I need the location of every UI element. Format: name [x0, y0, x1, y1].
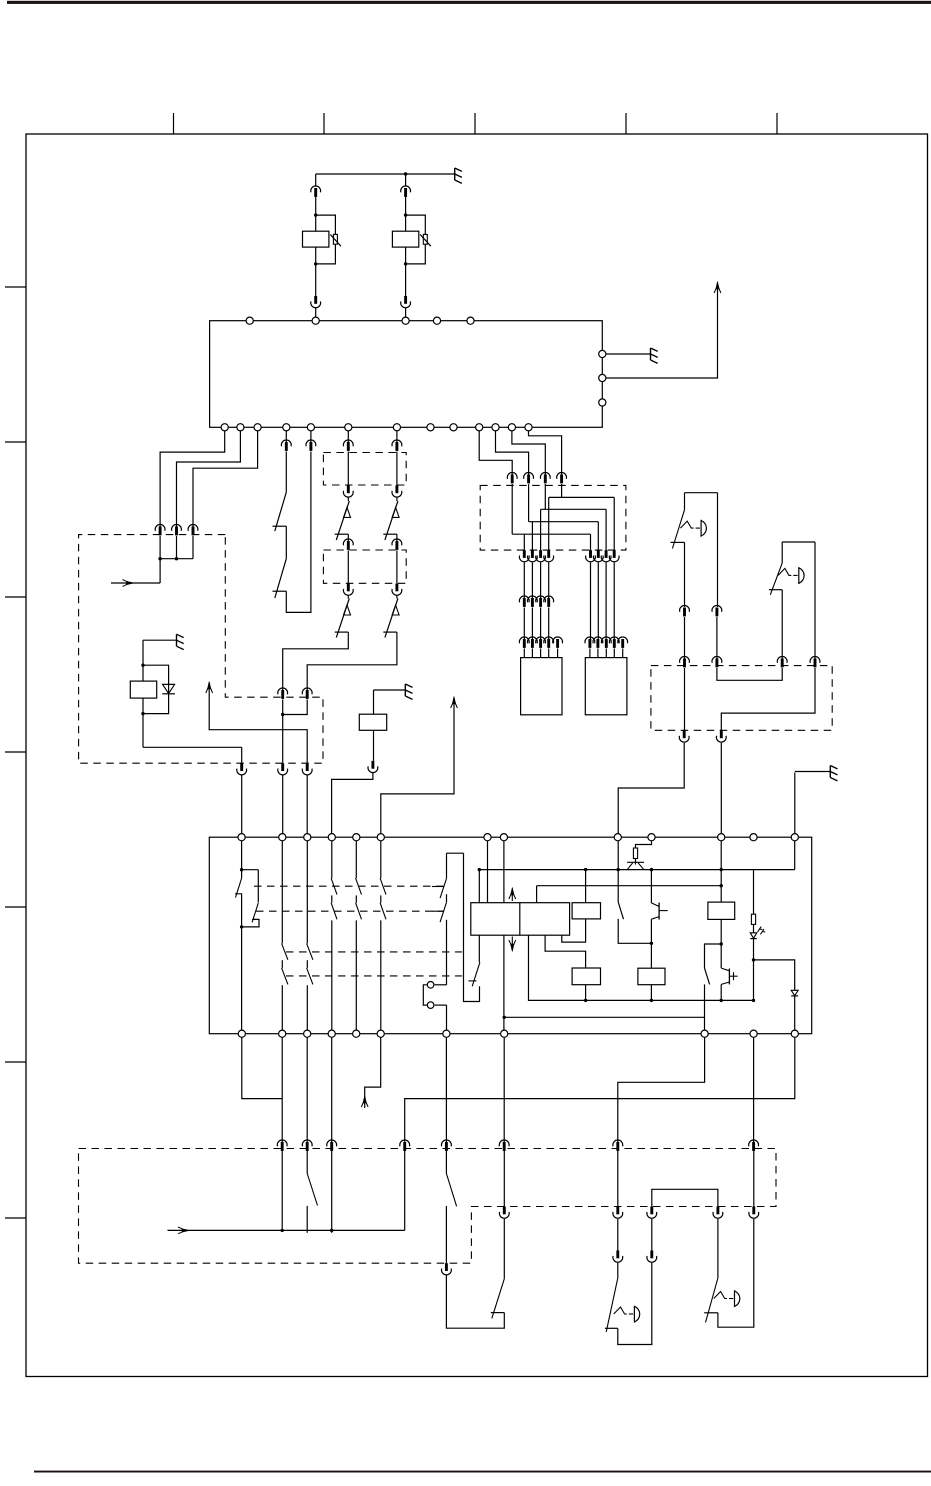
connector X42 — [188, 525, 198, 536]
connector X20b — [302, 1140, 312, 1151]
linkage (dashed) — [286, 975, 462, 977]
transistor V3 — [651, 903, 667, 920]
wire — [650, 985, 652, 1001]
wire — [503, 935, 505, 1030]
module B5 — [572, 968, 600, 985]
connector X61a — [343, 440, 353, 451]
wire — [347, 431, 349, 443]
wire — [782, 541, 815, 543]
transistor V2 — [627, 862, 644, 870]
node — [467, 317, 474, 324]
transistor V4 — [721, 968, 737, 984]
wire — [529, 521, 599, 523]
wire — [650, 919, 652, 968]
junction — [175, 557, 178, 560]
diode V1 — [162, 684, 175, 693]
wire — [529, 431, 562, 476]
wire — [622, 649, 624, 658]
node — [525, 424, 532, 431]
wire — [754, 960, 795, 990]
connector X13 — [519, 637, 529, 648]
wire — [285, 431, 287, 443]
connector X20a — [277, 1140, 287, 1151]
enclosure A4 (dashed) — [480, 485, 626, 550]
module B4 — [572, 903, 600, 919]
junction — [720, 942, 723, 945]
wire — [143, 639, 176, 641]
wire — [405, 174, 407, 186]
wire — [540, 608, 542, 641]
junction — [752, 958, 755, 961]
connector X12 — [536, 596, 546, 607]
connector X9 — [368, 761, 378, 773]
wire — [548, 497, 550, 550]
relay coil K2 — [392, 231, 418, 247]
wire — [512, 431, 545, 476]
wire — [396, 534, 398, 543]
wire — [720, 984, 722, 1000]
wire — [781, 590, 783, 662]
junction — [404, 262, 407, 265]
wire — [478, 935, 480, 962]
wire — [373, 690, 375, 714]
wire — [283, 700, 308, 715]
wire — [613, 563, 615, 641]
wire — [544, 484, 546, 509]
wire — [523, 649, 525, 658]
enclosure A5 (dashed) — [651, 666, 832, 731]
connector X2b — [401, 296, 411, 308]
wire — [685, 492, 718, 494]
wire — [605, 563, 607, 641]
junction — [650, 942, 653, 945]
enclosure A6 (dashed) — [79, 1149, 777, 1264]
wire — [613, 497, 615, 550]
wire — [753, 924, 755, 932]
wire — [355, 895, 357, 902]
wire — [590, 534, 592, 550]
linkage (dashed) — [286, 951, 462, 953]
wire — [306, 1037, 308, 1142]
node — [501, 1030, 508, 1037]
limit switch SQ3 — [605, 1278, 640, 1332]
arrow up — [361, 1096, 368, 1108]
wire — [306, 985, 308, 1030]
wire — [618, 1263, 652, 1345]
connector X13 — [536, 637, 546, 648]
wire — [310, 431, 312, 443]
wire — [781, 542, 783, 563]
linkage (dashed) — [254, 885, 444, 887]
wire — [540, 649, 542, 658]
switch S5 — [446, 1174, 456, 1207]
node — [328, 834, 335, 841]
wire — [487, 841, 489, 903]
border top ruler ticks — [174, 113, 778, 134]
connector X15b — [680, 657, 690, 668]
wire — [794, 841, 796, 870]
node — [402, 317, 409, 324]
wire — [404, 1150, 406, 1231]
connector X23b — [613, 1251, 623, 1263]
wire — [316, 215, 336, 264]
node — [718, 834, 725, 841]
connector X100 — [507, 473, 517, 484]
connector X13 — [544, 637, 554, 648]
wire — [142, 640, 144, 681]
wire — [315, 308, 317, 317]
wire — [332, 773, 373, 834]
connector X62d — [392, 584, 402, 596]
wire — [347, 534, 349, 543]
wire — [315, 195, 317, 231]
wire — [541, 508, 607, 510]
connector X20d — [400, 1140, 410, 1151]
wire — [281, 841, 283, 944]
node — [254, 424, 261, 431]
wire — [503, 841, 505, 903]
wire — [548, 563, 550, 600]
wire — [380, 920, 382, 1030]
junction — [330, 1229, 333, 1232]
node — [377, 834, 384, 841]
wire — [306, 776, 308, 834]
wire — [316, 173, 455, 175]
connector X23a — [613, 1207, 623, 1219]
node — [279, 834, 286, 841]
contact — [282, 943, 288, 959]
led V5 — [750, 927, 765, 939]
diode V6 — [791, 990, 798, 996]
wire — [177, 431, 241, 528]
contact K1a — [235, 870, 259, 927]
wire — [193, 431, 258, 528]
breaker F2a — [383, 501, 399, 540]
wire — [651, 1219, 653, 1251]
wire — [396, 551, 398, 584]
wire — [374, 689, 406, 691]
varistor RV1 — [330, 234, 341, 246]
wire — [720, 743, 722, 834]
connector X62a — [392, 440, 402, 451]
wire — [704, 984, 706, 1030]
wire — [286, 452, 311, 613]
connector X110 — [519, 550, 529, 562]
relay coil K4 — [359, 714, 386, 730]
wire — [160, 558, 193, 560]
arrow down — [509, 937, 516, 952]
wire — [606, 353, 651, 355]
varistor RV2 — [420, 234, 431, 246]
breaker F1b — [335, 599, 351, 638]
junction — [141, 664, 144, 667]
connector X61c — [343, 539, 353, 550]
junction — [240, 925, 243, 928]
wire — [606, 288, 718, 378]
enclosure A1 (dashed) — [79, 535, 323, 764]
node — [279, 1030, 286, 1037]
junction — [503, 1016, 506, 1019]
wire — [331, 1037, 333, 1142]
wire — [523, 534, 525, 550]
node — [345, 424, 352, 431]
switch S2 — [618, 902, 623, 919]
connector X12 — [544, 596, 554, 607]
wire — [241, 894, 243, 927]
wire — [405, 1037, 795, 1142]
wire — [720, 841, 722, 902]
connector X13 — [618, 637, 628, 648]
connector X8b — [302, 763, 312, 775]
connector X2a — [401, 186, 411, 197]
wire — [446, 1276, 504, 1329]
connector X13 — [553, 637, 563, 648]
wire — [503, 1219, 505, 1279]
wire — [650, 870, 652, 903]
wire — [617, 1219, 619, 1251]
connector X117 — [609, 550, 619, 562]
wire — [347, 498, 349, 502]
node — [492, 424, 499, 431]
wire — [496, 431, 529, 476]
junction — [141, 712, 144, 715]
breaker F2b — [383, 599, 399, 638]
wire — [160, 431, 225, 528]
switch S1b — [273, 559, 287, 598]
node — [238, 1030, 245, 1037]
connector X41 — [172, 525, 182, 536]
junction — [404, 172, 407, 175]
wire — [528, 484, 530, 522]
enclosure A3 (dashed) — [323, 550, 406, 583]
wire — [306, 960, 308, 968]
junction — [158, 557, 161, 560]
junction — [584, 999, 587, 1002]
wire — [405, 195, 407, 231]
wire — [142, 698, 144, 747]
wire — [143, 746, 242, 748]
wire — [111, 582, 160, 584]
arrow up — [509, 888, 516, 902]
wire — [159, 536, 161, 559]
resistor R1 — [633, 848, 637, 859]
connector X20g — [613, 1140, 623, 1151]
wire — [445, 1150, 447, 1174]
junction — [720, 868, 723, 871]
ground — [651, 348, 658, 363]
connector X21 — [442, 1263, 452, 1275]
wire — [347, 452, 349, 486]
arrow up — [714, 282, 721, 294]
wire — [618, 1037, 705, 1142]
connector X23d — [647, 1207, 657, 1219]
connector X14b — [712, 657, 722, 668]
node — [312, 317, 319, 324]
junction — [720, 884, 723, 887]
connector X114 — [586, 550, 596, 562]
wire — [283, 632, 349, 691]
connector X115 — [593, 550, 603, 562]
wire — [331, 1150, 333, 1233]
connector X116 — [601, 550, 611, 562]
node — [283, 424, 290, 431]
node — [443, 1030, 450, 1037]
junction — [617, 868, 620, 871]
arrow up — [451, 697, 458, 709]
junction — [314, 262, 317, 265]
wire — [512, 533, 590, 535]
junction — [752, 999, 755, 1002]
wire — [159, 559, 161, 583]
wire — [585, 870, 587, 903]
contact — [356, 903, 362, 920]
connector X16a — [777, 657, 787, 668]
wire — [561, 484, 563, 497]
wire — [794, 773, 796, 834]
connector X103 — [557, 473, 567, 484]
limit switch SQ2 — [769, 563, 804, 595]
relay coil K1 — [303, 231, 329, 247]
connector X13 — [609, 637, 619, 648]
wire — [705, 944, 722, 968]
terminal block U1 — [210, 321, 603, 428]
contact K2b — [464, 853, 480, 1001]
wire — [281, 1037, 283, 1142]
wire — [306, 1206, 308, 1233]
connector X1a — [311, 186, 321, 197]
wire — [381, 698, 454, 834]
switch S4 — [307, 1174, 317, 1206]
linkage (dashed) — [256, 910, 444, 912]
node — [246, 317, 253, 324]
wire — [753, 1037, 755, 1142]
border left ruler ticks — [5, 287, 26, 1218]
wire — [282, 776, 284, 834]
node — [599, 374, 606, 381]
wire — [306, 1150, 308, 1174]
connector X15c — [679, 730, 689, 742]
wire — [331, 895, 333, 902]
wire — [684, 493, 686, 510]
wire — [529, 935, 754, 1000]
node — [791, 1030, 798, 1037]
wire — [285, 452, 287, 493]
node — [484, 834, 491, 841]
wire — [355, 920, 357, 1030]
wire — [241, 747, 243, 763]
node — [221, 424, 228, 431]
node — [304, 1030, 311, 1037]
connector X13 — [528, 637, 538, 648]
connector X7a — [278, 688, 288, 699]
connector X14a — [712, 606, 722, 617]
junction — [281, 1229, 284, 1232]
connector X61b — [343, 485, 353, 497]
node — [500, 834, 507, 841]
connector X12 — [528, 596, 538, 607]
connector X22a — [499, 1207, 509, 1219]
connector X15a — [680, 606, 690, 617]
contact — [331, 878, 337, 895]
wire — [285, 526, 287, 559]
ground — [455, 168, 462, 183]
node — [377, 1030, 384, 1037]
node — [701, 1030, 708, 1037]
connector X7b — [302, 688, 312, 699]
wire — [209, 683, 307, 763]
contact K2a — [432, 853, 464, 985]
wire — [406, 215, 426, 264]
junction — [720, 999, 723, 1002]
connector X23c — [647, 1251, 657, 1263]
connector X5b — [306, 440, 316, 451]
connector X13 — [601, 637, 611, 648]
connector X20f — [499, 1140, 509, 1151]
wire — [315, 174, 317, 186]
connector X102 — [540, 473, 550, 484]
arrow up — [206, 682, 213, 694]
connector X5a — [281, 440, 291, 451]
module B6 — [638, 968, 665, 985]
wire — [168, 1229, 405, 1231]
contact — [380, 903, 386, 920]
node — [353, 1030, 360, 1037]
breaker F1a — [335, 501, 351, 540]
module B2 — [585, 658, 627, 715]
node — [328, 1030, 335, 1037]
wire — [479, 431, 512, 476]
wire — [445, 1037, 447, 1142]
wire — [617, 1150, 619, 1207]
node — [353, 834, 360, 841]
ground — [830, 766, 837, 781]
wire — [753, 1150, 755, 1207]
wire — [503, 1150, 505, 1207]
wire — [605, 509, 607, 550]
connector X13 — [585, 637, 595, 648]
wire — [531, 522, 533, 550]
wire — [347, 596, 349, 599]
limit switch SQ1 — [671, 510, 707, 549]
wire — [315, 247, 317, 296]
wire — [380, 841, 382, 878]
junction — [240, 868, 243, 871]
wire — [720, 944, 722, 968]
wire — [617, 1263, 619, 1278]
module B7 — [708, 902, 735, 919]
junction — [584, 868, 587, 871]
connector X62b — [392, 485, 402, 497]
wire — [396, 596, 398, 599]
wire — [717, 668, 782, 680]
node — [599, 350, 606, 357]
wire — [241, 927, 243, 1030]
wire — [523, 563, 525, 600]
node — [614, 834, 621, 841]
junction — [281, 713, 284, 716]
bottom title bar line — [34, 1471, 931, 1473]
wire — [540, 563, 542, 600]
control block U2 — [209, 837, 811, 1033]
wire — [380, 895, 382, 902]
wire — [794, 996, 796, 1030]
connector X7c — [278, 763, 288, 775]
node — [393, 424, 400, 431]
node — [791, 834, 798, 841]
module B1 — [521, 658, 562, 715]
junction — [650, 868, 653, 871]
connector X111 — [528, 550, 538, 562]
